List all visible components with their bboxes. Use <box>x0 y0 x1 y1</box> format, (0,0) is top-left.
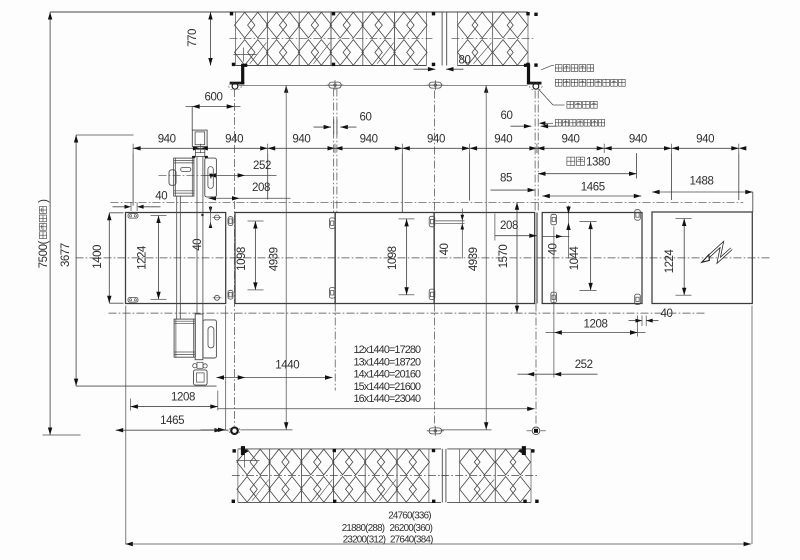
bolt joint433 bot <box>429 289 435 300</box>
dim 1224 M5 label <box>664 249 676 274</box>
dim 7500 bottom stub <box>43 434 81 436</box>
dim 80 label <box>459 55 471 67</box>
dim 600 ext <box>191 107 193 131</box>
svg-text:940: 940 <box>427 133 445 145</box>
svg-text:1208: 1208 <box>584 319 608 331</box>
ext x637 <box>637 316 639 337</box>
centerline x535 lower <box>535 304 537 426</box>
tension unit column <box>195 314 203 360</box>
dim 4939-1 line <box>285 85 287 430</box>
dim 252R line <box>518 372 598 376</box>
dim 3677 vertical line <box>74 135 78 386</box>
svg-text:940: 940 <box>629 133 647 145</box>
svg-text:1440: 1440 <box>275 360 299 372</box>
label changcaokong-weizhi <box>555 65 593 72</box>
label yuankong-weizhi <box>567 101 597 108</box>
dim 60 right label <box>501 110 513 122</box>
bottom truss splice posts <box>442 449 446 503</box>
ref line y85 <box>239 84 528 86</box>
dim 3677 bottom stub <box>76 385 216 387</box>
svg-text:60: 60 <box>360 112 372 124</box>
dim 60 left label <box>360 112 372 124</box>
dim 1208L line <box>130 391 217 411</box>
bolt M2 topleft <box>228 217 233 226</box>
svg-text:21880(288): 21880(288) <box>342 523 385 534</box>
svg-text:1224: 1224 <box>664 249 676 274</box>
module M3 end double <box>536 213 538 304</box>
svg-text:1488: 1488 <box>690 176 714 188</box>
dim 7500 vertical line <box>48 12 52 435</box>
bolt M2 botleft <box>228 290 233 299</box>
strip pair B <box>197 157 203 315</box>
machine motor body <box>174 158 194 196</box>
dim 1208L label <box>171 392 195 404</box>
svg-text:1400: 1400 <box>92 245 104 269</box>
module M3b <box>434 213 535 304</box>
label weidijiao-pengzhang <box>555 79 625 86</box>
svg-text:1098: 1098 <box>236 247 248 271</box>
dim 60 right <box>511 124 557 128</box>
dim 1440 label <box>275 360 299 372</box>
splice joint433 lines <box>436 221 465 223</box>
svg-text:208: 208 <box>252 182 270 194</box>
dim 1044 label <box>569 246 581 271</box>
svg-text:1570: 1570 <box>498 245 510 269</box>
ext module edges to bottom <box>126 306 226 545</box>
svg-text:940: 940 <box>225 133 243 145</box>
machine horiz centerline <box>159 174 209 176</box>
dim 1465t label <box>581 182 605 194</box>
tension adjuster detail <box>193 362 208 385</box>
dim 40 M4 label <box>548 244 560 256</box>
dim 1570 line <box>515 202 519 313</box>
dim 40 joint433 label <box>439 244 451 256</box>
top frame line y11.5 <box>50 11 528 13</box>
band bottom dashdot line <box>109 312 707 314</box>
svg-text:7500(: 7500( <box>38 240 50 268</box>
top truss span A <box>230 12 433 66</box>
bolt M4 topright <box>635 210 641 221</box>
arrow into circle left <box>201 428 226 432</box>
module M5 <box>652 212 752 304</box>
dim 85 label <box>500 173 512 185</box>
dim danjie1380 line <box>538 172 637 176</box>
dim 1208R line <box>546 330 646 334</box>
machine mount plate <box>205 158 217 197</box>
centerline machine x234 <box>234 89 236 426</box>
leader foot-bolt <box>539 121 553 125</box>
dim 252t label <box>253 160 271 172</box>
anchor bracket right circle <box>530 83 542 89</box>
dim 600 label <box>205 92 223 104</box>
svg-text:940: 940 <box>158 133 176 145</box>
dim 770 line <box>208 12 212 66</box>
svg-text:252: 252 <box>253 160 271 172</box>
anchor bracket left <box>230 64 248 85</box>
svg-text:): ) <box>38 199 50 203</box>
dim 208t label <box>252 182 270 194</box>
bolt M1 botright circle <box>213 295 222 300</box>
dim 1400 vertical line <box>107 213 111 303</box>
module M4 <box>542 213 642 304</box>
dim 3677 label <box>60 243 72 267</box>
dim 4939-2 label <box>468 247 480 271</box>
svg-text:1208: 1208 <box>171 392 195 404</box>
ref circle left <box>229 427 240 434</box>
dim bottom line <box>125 542 751 546</box>
dim 85 line <box>491 188 536 192</box>
dim 1224 M1 label <box>137 245 149 270</box>
dim 1488 line <box>652 190 753 194</box>
svg-text:1224: 1224 <box>137 245 149 270</box>
dim chain 940 line+arrows <box>133 144 746 153</box>
machine top coupling box <box>192 130 208 158</box>
slot symbol bottom <box>427 426 444 436</box>
module M1 <box>126 213 226 304</box>
bottom truss span B <box>441 449 537 503</box>
ext right module to bottom <box>751 306 753 545</box>
top truss span B <box>452 12 535 66</box>
dim 770 label <box>187 29 199 47</box>
dim 600 line <box>186 104 241 108</box>
table segment counts <box>354 344 422 405</box>
machine motor endcap <box>169 170 176 186</box>
dim 80 lines <box>414 67 464 71</box>
tension mount plate <box>203 320 217 358</box>
dim 1098 M2 label <box>236 247 248 271</box>
svg-text:770: 770 <box>187 29 199 47</box>
svg-text:1098: 1098 <box>387 246 399 270</box>
svg-text:14x1440=20160: 14x1440=20160 <box>354 369 422 381</box>
dim 1098 M2 <box>248 221 264 290</box>
dim 40R line <box>629 316 659 327</box>
top truss splice posts <box>442 12 447 66</box>
bottom truss corner dots <box>232 449 539 503</box>
svg-text:80: 80 <box>459 55 471 67</box>
leader slot-hole <box>541 65 554 70</box>
dim 40R label <box>661 308 673 320</box>
svg-text:940: 940 <box>360 133 378 145</box>
dim 1488 label <box>690 176 714 188</box>
dim 1400 label <box>92 245 104 269</box>
svg-text:3677: 3677 <box>60 243 72 267</box>
ext x553 <box>553 227 555 378</box>
bolt M4 botright <box>635 294 641 305</box>
anchor bracket left circle <box>229 83 241 89</box>
top truss left crosshair <box>234 48 257 62</box>
svg-text:940: 940 <box>292 133 310 145</box>
dim 4939-1 top arrow <box>284 85 288 93</box>
module M2 <box>235 213 335 304</box>
svg-text:26200(360): 26200(360) <box>389 523 432 534</box>
svg-text:208: 208 <box>500 220 518 232</box>
bolt joint334 top <box>329 218 335 229</box>
svg-text:40: 40 <box>439 244 451 256</box>
bottom truss left crosshair <box>236 454 259 468</box>
dim 4939 bottom arrows <box>241 422 492 430</box>
slot symbol top B <box>427 80 444 90</box>
label 26200 <box>389 523 432 534</box>
ref circle right <box>527 427 546 435</box>
north arrow symbol <box>702 245 732 263</box>
svg-text:16x1440=23040: 16x1440=23040 <box>354 393 422 405</box>
svg-text:940: 940 <box>494 133 512 145</box>
svg-text:1465: 1465 <box>160 415 184 427</box>
svg-text:40: 40 <box>661 308 673 320</box>
dim 4939-1 label <box>269 247 281 271</box>
slot symbol top A <box>327 80 344 90</box>
dim 40 topleft <box>113 203 161 212</box>
bottom truss anchor right <box>518 446 534 455</box>
svg-text:1465: 1465 <box>581 182 605 194</box>
centerline joint x334 pair <box>334 89 337 213</box>
joint40 gap detail <box>201 206 221 228</box>
dim 208r label <box>500 220 518 232</box>
svg-text:24760(336): 24760(336) <box>388 511 431 522</box>
dim 208t line <box>209 196 291 200</box>
svg-text:1044: 1044 <box>569 246 581 271</box>
svg-text:4939: 4939 <box>269 247 281 271</box>
dim 208r line <box>495 214 537 241</box>
bolt M4 topleft <box>551 214 557 225</box>
svg-text:40: 40 <box>192 239 204 251</box>
dim 7500 label (7500 expanded size) <box>38 199 50 269</box>
strip pair A <box>177 196 181 319</box>
dim 4939-2 line <box>485 85 487 430</box>
label weidijiao-luoshuan <box>555 120 605 127</box>
svg-text:12x1440=17280: 12x1440=17280 <box>354 344 422 356</box>
dim 1440 line <box>217 375 333 379</box>
svg-text:85: 85 <box>500 173 512 185</box>
svg-text:940: 940 <box>696 133 714 145</box>
dim chain 940 labels <box>158 133 714 145</box>
dim 1570 label <box>498 245 510 269</box>
label 21880 <box>342 523 385 534</box>
dim 1465t line <box>542 194 641 198</box>
ref line y408 to CL <box>218 407 535 411</box>
svg-text:4939: 4939 <box>468 247 480 271</box>
label 23200 <box>343 535 386 546</box>
chain tick extensions <box>133 153 739 212</box>
bolt M1 botleft <box>128 298 138 303</box>
dim 1208R label <box>584 319 608 331</box>
leader round-hole <box>538 89 564 105</box>
bolt joint433 top <box>429 216 435 227</box>
bolt joint334 bot <box>329 288 335 299</box>
tension unit body <box>174 319 195 357</box>
dim 1465L label <box>160 415 184 427</box>
bottom truss span A <box>232 449 447 503</box>
bolt M4 botleft <box>551 292 557 303</box>
label 27640 <box>390 535 433 546</box>
dim 252R label <box>575 359 593 371</box>
svg-text:252: 252 <box>575 359 593 371</box>
label 24760 <box>388 511 431 522</box>
band mid centerline <box>76 257 771 259</box>
dim 1044 line <box>580 222 597 291</box>
svg-text:13x1440=18720: 13x1440=18720 <box>354 356 422 368</box>
module M3a <box>335 213 434 304</box>
svg-text:15x1440=21600: 15x1440=21600 <box>354 381 422 393</box>
centerline joint x334 lower <box>334 304 336 391</box>
svg-text:1380: 1380 <box>586 156 610 168</box>
splice joint433 dim <box>461 209 465 259</box>
dim 1224 M5 <box>676 219 692 296</box>
bottom truss anchor left <box>233 446 249 455</box>
svg-text:600: 600 <box>205 92 223 104</box>
top truss corner dots <box>230 12 538 67</box>
dim 1465L line <box>116 428 229 432</box>
svg-text:60: 60 <box>501 110 513 122</box>
dim 40 topleft label <box>155 190 167 202</box>
dim 1224 M1 <box>151 216 167 300</box>
dim 60 left <box>314 120 357 135</box>
dim 1488 ext right <box>752 192 754 212</box>
band top dashdot line <box>111 201 744 203</box>
dim 1098 M3 label <box>387 246 399 270</box>
dim danjie1380 label <box>567 156 610 168</box>
dim 40 strip label <box>192 239 204 251</box>
centerline x434 <box>434 91 436 427</box>
centerline x535 pair <box>535 91 538 213</box>
dim 4939-2 top arrow <box>484 85 488 93</box>
svg-text:940: 940 <box>562 133 580 145</box>
bolt M1 topleft <box>128 214 138 219</box>
dim 3677 top stub <box>76 134 133 136</box>
dim 1098 M3 line <box>399 219 415 295</box>
dim 1400 stubs <box>109 213 123 303</box>
dim 252t line <box>203 173 277 177</box>
svg-text:40: 40 <box>155 190 167 202</box>
anchor bracket right <box>524 64 542 85</box>
dim 40 M4 cluster <box>542 206 571 259</box>
